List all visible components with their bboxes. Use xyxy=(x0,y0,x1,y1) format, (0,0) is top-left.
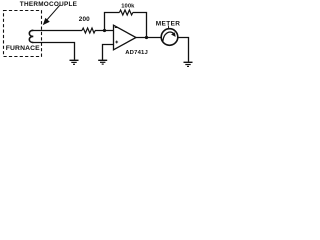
meter M1 circle xyxy=(161,29,178,46)
wire: op-amp output to meter xyxy=(136,37,161,39)
ground (meter return) xyxy=(184,62,193,66)
wire: thermocouple bottom lead to ground xyxy=(32,43,75,60)
svg-text:FURNACE: FURNACE xyxy=(6,45,40,52)
wire: feedback down segment to output xyxy=(133,13,147,38)
svg-text:THERMOCOUPLE: THERMOCOUPLE xyxy=(20,1,78,8)
ground (thermocouple return) xyxy=(70,60,79,64)
wire: feedback up segment xyxy=(105,13,120,31)
wire: op-amp + input to ground xyxy=(103,45,114,61)
meter needle arrow xyxy=(163,32,176,41)
op-amp U1 AD741J triangle xyxy=(114,25,137,50)
op-amp inverting pin mark - xyxy=(115,27,118,29)
furnace enclosure (dashed box) xyxy=(4,11,42,57)
wire: thermocouple top lead to R1 xyxy=(32,30,82,32)
meter label tick xyxy=(168,26,170,29)
thermocouple TC1 junction coil xyxy=(29,30,33,42)
wire: R1 to op-amp inverting input xyxy=(95,30,114,32)
op-amp noninverting pin mark + xyxy=(115,41,118,44)
svg-text:200: 200 xyxy=(79,16,90,23)
node: summing junction xyxy=(103,29,106,32)
resistor R 200 ohm xyxy=(82,28,95,33)
node: output junction xyxy=(145,36,148,39)
thermocouple pointer arrow xyxy=(44,5,60,24)
svg-text:AD741J: AD741J xyxy=(125,50,148,56)
svg-text:100k: 100k xyxy=(121,4,135,10)
ground (op-amp + input) xyxy=(98,60,107,64)
wire: meter to ground xyxy=(178,38,189,62)
resistor 100k feedback xyxy=(119,10,132,15)
